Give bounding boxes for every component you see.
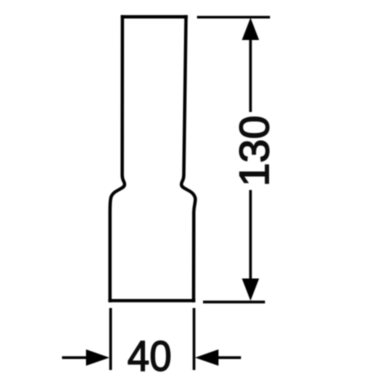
svg-text:130: 130 <box>231 115 278 186</box>
svg-text:40: 40 <box>127 332 171 380</box>
